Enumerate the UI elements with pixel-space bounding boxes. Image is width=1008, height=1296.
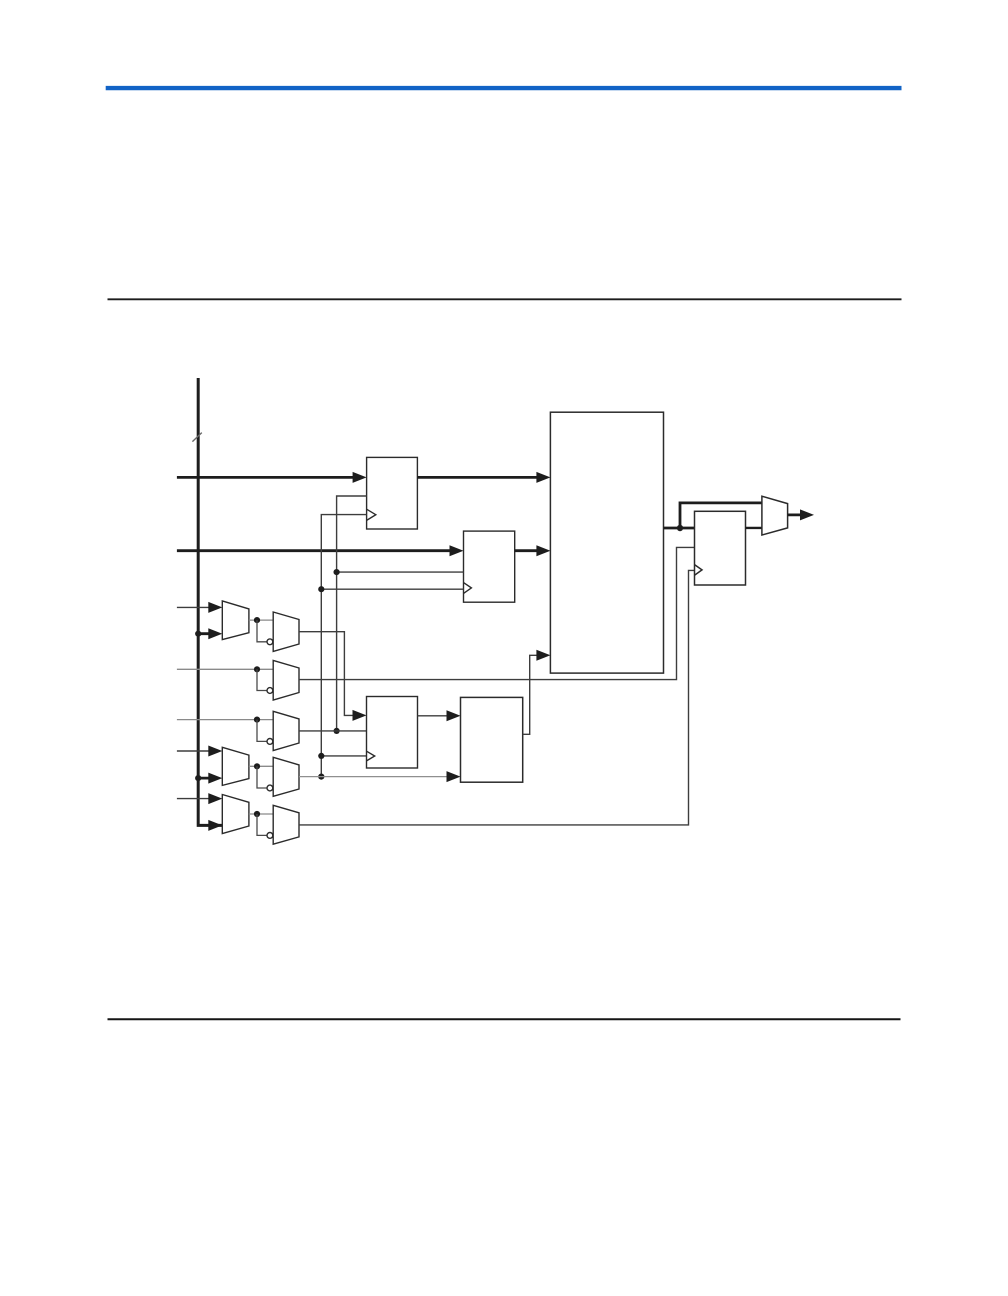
- wire row1 out to FF3: [299, 632, 360, 716]
- junction: [318, 774, 324, 780]
- bubble row5: [267, 833, 273, 839]
- arrowhead into logic block: [536, 545, 550, 556]
- flip-flop FF1: [367, 457, 418, 529]
- wire ENA to FF2: [337, 571, 464, 573]
- wire CLK to FF2: [321, 588, 463, 590]
- flip-flop FF2: [464, 531, 515, 602]
- arrowhead into FF2: [450, 545, 464, 556]
- output register: [695, 511, 746, 585]
- wire CLK to FF3: [321, 755, 366, 757]
- mux row3: [273, 711, 299, 750]
- wire register out: [746, 527, 762, 529]
- arrowhead into block2 lower: [447, 771, 461, 782]
- logic block (large): [550, 412, 663, 673]
- inverter tap row4: [257, 766, 267, 788]
- junction: [334, 569, 340, 575]
- bubble row4: [267, 785, 273, 791]
- row3 input (gray): [177, 719, 273, 721]
- arrowhead into logic block: [536, 472, 550, 483]
- wire bypass branch (thick): [680, 503, 762, 528]
- block2: [461, 697, 523, 782]
- mux row1 stage2: [273, 612, 299, 651]
- junction: [677, 525, 683, 531]
- wire FF2 out (thick): [515, 549, 544, 552]
- section rule bottom: [108, 1018, 901, 1020]
- wire row3 out to FF3 D: [299, 730, 367, 732]
- junction: [318, 586, 324, 592]
- link row4 stage1 to stage2: [249, 765, 273, 767]
- wire row4 out to block2 (gray): [299, 776, 454, 778]
- arrowhead row5 B (bus end): [208, 820, 222, 831]
- wire row2 out to output register ena: [299, 547, 695, 679]
- wire FF1 data in (thick): [177, 476, 360, 479]
- row1 input B from bus (thick): [198, 632, 216, 635]
- wire FF2 data in (thick): [177, 549, 457, 552]
- row2 input (gray): [177, 668, 273, 670]
- arrowhead into FF1: [353, 472, 367, 483]
- flip-flop FF3: [367, 697, 418, 769]
- arrowhead into FF3: [353, 710, 367, 721]
- net ENA vertical: [337, 496, 367, 731]
- net CLK vertical: [321, 515, 366, 777]
- bubble row3: [267, 739, 273, 745]
- junction: [254, 811, 260, 817]
- section rule top: [108, 298, 902, 300]
- arrowhead into block2: [447, 710, 461, 721]
- wire final out (thick): [788, 514, 808, 517]
- wire logic block out (thick): [664, 527, 695, 530]
- arrowhead row1 B: [208, 628, 222, 639]
- bubble row2: [267, 688, 273, 694]
- mux row5 stage2: [273, 805, 299, 844]
- mux row4 stage2: [273, 757, 299, 796]
- wire block2 out to logic block: [523, 655, 544, 734]
- mux row5 stage1: [222, 795, 249, 834]
- arrowhead row1 A: [208, 602, 222, 613]
- link row5 stage1 to stage2: [249, 813, 273, 815]
- junction: [318, 753, 324, 759]
- header blue rule: [106, 86, 902, 90]
- mux row1 stage1: [222, 601, 249, 640]
- junction: [254, 617, 260, 623]
- junction: [254, 717, 260, 723]
- arrowhead into logic block lower: [536, 650, 550, 661]
- arrowhead final out: [800, 509, 814, 520]
- junction: [334, 728, 340, 734]
- row4 input B from bus (thick): [198, 777, 216, 780]
- inverter tap row1: [257, 620, 267, 642]
- arrowhead row4 A: [208, 746, 222, 757]
- junction: [254, 763, 260, 769]
- link row1 stage1 to stage2: [249, 619, 273, 621]
- wire FF1 out (thick): [417, 476, 544, 479]
- output buffer mux: [762, 496, 788, 535]
- arrowhead row4 B: [208, 773, 222, 784]
- wire bus vertical: [198, 378, 222, 825]
- junction on bus: [195, 631, 201, 637]
- row1 input A (thin): [177, 606, 216, 608]
- wire FF3 out: [418, 715, 455, 717]
- wire row5 out to output register clk: [299, 570, 695, 825]
- bus width slash: [192, 433, 201, 442]
- mux row4 stage1: [222, 747, 249, 785]
- row4 input A (thin): [177, 750, 216, 752]
- bubble row1: [267, 639, 273, 645]
- arrowhead row5 A: [208, 793, 222, 804]
- junction: [254, 666, 260, 672]
- inverter tap row2: [257, 669, 267, 690]
- junction on bus: [195, 775, 201, 781]
- mux row2: [273, 660, 299, 700]
- inverter tap row5: [257, 814, 267, 835]
- row5 input A (thin): [177, 798, 216, 800]
- inverter tap row3: [257, 720, 267, 742]
